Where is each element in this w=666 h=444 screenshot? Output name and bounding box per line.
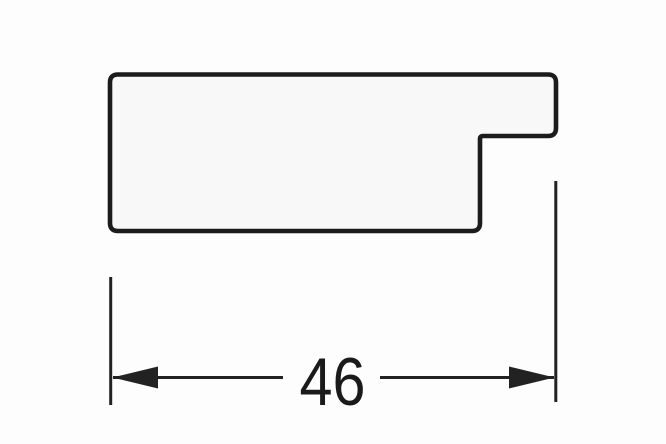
right extension line [554,181,557,402]
left extension line [109,277,112,405]
left arrowhead [113,367,159,389]
moulding profile outline [110,75,556,232]
dimension line left segment [113,376,283,379]
dimension line right segment [380,376,554,379]
right arrowhead [509,367,555,389]
svg-text:46: 46 [300,344,366,420]
